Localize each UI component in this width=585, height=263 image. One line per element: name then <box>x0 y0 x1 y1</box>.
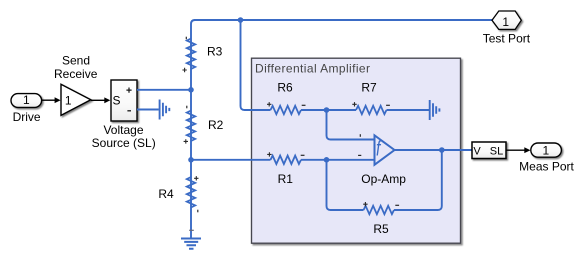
wire: R1 to junction J4 and op-amp plus input <box>301 159 374 161</box>
wire: vsrc + to chain <box>137 89 191 91</box>
resistor R2 <box>184 106 224 144</box>
ground (electrical reference, horizontal) inside box <box>430 100 440 120</box>
svg-text:1: 1 <box>502 15 509 29</box>
svg-text:R2: R2 <box>208 118 224 132</box>
resistor R1 <box>267 152 304 186</box>
ground (electrical reference, at source) <box>160 100 170 120</box>
resistor R6 <box>267 81 306 115</box>
Differential Amplifier area box <box>252 58 461 243</box>
wire: top horizontal to Test Port <box>194 19 492 21</box>
signal arrow V to Meas Port <box>506 147 531 153</box>
node junction J2 (R6/R7) <box>324 107 330 113</box>
resistor R3 <box>182 37 222 73</box>
svg-text:SL: SL <box>490 146 503 158</box>
output port 1 Meas Port <box>519 143 574 173</box>
svg-text:Op-Amp: Op-Amp <box>361 172 406 186</box>
resistor R7 <box>352 81 390 115</box>
block Voltage Source (SL) <box>92 80 156 150</box>
resistor R5 <box>363 202 399 236</box>
ground (electrical reference, bottom) <box>181 230 201 248</box>
signal arrow Drive to Send/Receive <box>42 97 61 103</box>
input port 1 Drive <box>11 93 42 124</box>
wire: R2/R4 node to R1 <box>191 159 271 161</box>
svg-text:R6: R6 <box>277 81 293 95</box>
svg-text:V: V <box>473 146 481 158</box>
svg-text:1: 1 <box>23 93 30 107</box>
wire: R7 to ground <box>387 109 430 111</box>
node junction J6 (vsrc+) <box>188 87 194 93</box>
svg-text:Differential Amplifier: Differential Amplifier <box>255 62 370 76</box>
wire: R6 to junction <box>301 109 327 111</box>
node junction J3 on chain <box>188 157 194 163</box>
svg-text:R5: R5 <box>373 222 389 236</box>
wire: R5 to J4 <box>327 160 364 210</box>
svg-text:Drive: Drive <box>13 110 41 124</box>
svg-text:Test Port: Test Port <box>483 31 531 45</box>
wire: J2 down to op-amp minus input <box>327 110 375 140</box>
node junction J4 (R1/R5) <box>324 157 330 163</box>
op-amp U1 <box>358 134 406 186</box>
svg-text:1: 1 <box>543 144 550 158</box>
resistor R4 <box>158 176 198 212</box>
svg-text:R3: R3 <box>207 44 223 58</box>
node junction J1 top <box>238 17 244 23</box>
svg-text:Send: Send <box>62 53 90 67</box>
wire: junction to R7 <box>327 109 357 111</box>
wire: branch down to R6 <box>241 20 271 110</box>
wire: op-amp output to V block <box>395 149 473 151</box>
node junction J5 (output) <box>439 147 445 153</box>
block V (voltage sensor, SL out) <box>472 142 506 159</box>
svg-text:1: 1 <box>65 94 72 108</box>
svg-text:Meas Port: Meas Port <box>519 159 574 173</box>
gain triangle Send Receive <box>54 53 98 115</box>
svg-text:Source (SL): Source (SL) <box>92 136 156 150</box>
svg-text:R4: R4 <box>158 187 174 201</box>
svg-text:R1: R1 <box>278 172 294 186</box>
wire: main vertical chain x=191 (top corner to ground) <box>191 20 195 238</box>
svg-text:S: S <box>112 94 120 108</box>
wire: feedback loop through R5 <box>394 150 442 210</box>
svg-text:Receive: Receive <box>54 67 98 81</box>
signal arrow Send/Receive to Voltage Source <box>91 97 111 103</box>
svg-text:R7: R7 <box>361 81 377 95</box>
output port 1 Test Port <box>483 11 531 45</box>
wire: vsrc - to ground <box>137 109 159 111</box>
